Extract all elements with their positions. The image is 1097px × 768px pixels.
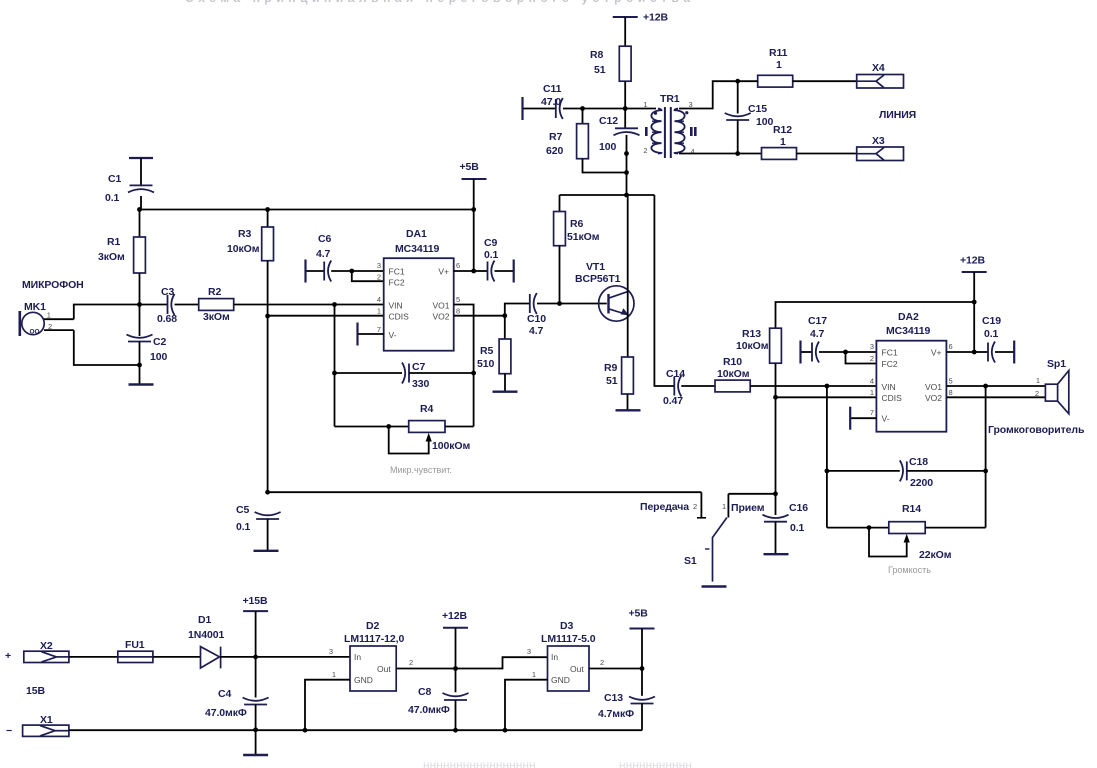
svg-text:X4: X4 bbox=[872, 62, 885, 74]
svg-text:2: 2 bbox=[409, 658, 413, 667]
svg-text:22кОм: 22кОм bbox=[919, 549, 952, 561]
svg-text:D2: D2 bbox=[366, 620, 379, 632]
svg-text:TR1: TR1 bbox=[660, 93, 680, 105]
svg-text:47.0: 47.0 bbox=[541, 96, 561, 108]
svg-text:ннннннннннннннннн: ннннннннннннннннн bbox=[423, 758, 536, 768]
svg-text:R5: R5 bbox=[480, 345, 493, 357]
junction D3 GND rail bbox=[503, 728, 508, 733]
junction collector node bbox=[624, 193, 629, 198]
wire C7 left bbox=[335, 372, 403, 374]
svg-text:Передача: Передача bbox=[640, 501, 689, 513]
junction C7 left bbox=[332, 371, 337, 376]
resistor R2 bbox=[199, 299, 234, 311]
speaker Sp1 bbox=[1045, 371, 1068, 414]
wire C17 left bbox=[802, 351, 813, 353]
arrow VT1 emitter bbox=[621, 308, 629, 315]
ground C16 bbox=[764, 553, 789, 555]
svg-text:4.7: 4.7 bbox=[810, 328, 825, 340]
svg-text:1: 1 bbox=[532, 670, 536, 679]
svg-text:620: 620 bbox=[546, 145, 563, 157]
svg-text:МИКРОФОН: МИКРОФОН bbox=[22, 279, 84, 291]
svg-text:Громкоговоритель: Громкоговоритель bbox=[988, 424, 1085, 436]
capacitor C1 bbox=[128, 185, 154, 192]
winding numeral I bbox=[645, 127, 648, 136]
resistor R11 bbox=[758, 75, 793, 87]
junction R13/CDIS2 bbox=[773, 395, 778, 400]
op-amp DA1 MC34119 bbox=[384, 258, 454, 351]
power +5B symbol bbox=[462, 178, 487, 180]
svg-text:4: 4 bbox=[870, 377, 874, 386]
capacitor C2 bbox=[127, 335, 153, 342]
svg-text:X1: X1 bbox=[40, 714, 53, 726]
fuse FU1 bbox=[118, 651, 153, 662]
svg-text:R3: R3 bbox=[238, 228, 251, 240]
wire FC2 jog bbox=[352, 271, 384, 281]
svg-text:D3: D3 bbox=[560, 620, 573, 632]
svg-text:C2: C2 bbox=[153, 336, 166, 348]
svg-text:2: 2 bbox=[600, 658, 604, 667]
junction D2 GND rail bbox=[303, 728, 308, 733]
wire R10 to VIN DA2 bbox=[750, 385, 876, 387]
ground C5 bbox=[254, 550, 279, 552]
svg-text:C11: C11 bbox=[543, 83, 562, 95]
svg-text:3: 3 bbox=[329, 647, 333, 656]
wire C5 to ground bbox=[267, 519, 269, 550]
junction R7 top bbox=[580, 106, 585, 111]
wire R2 to VIN bbox=[234, 304, 384, 306]
wire +12B down bbox=[973, 272, 975, 352]
svg-text:Прием: Прием bbox=[731, 502, 765, 514]
wire C8 bottom stub bbox=[455, 700, 457, 730]
svg-text:ннннннннннн: ннннннннннн bbox=[619, 758, 692, 768]
junction VO1/C18 branch bbox=[983, 384, 988, 389]
svg-text:1: 1 bbox=[47, 311, 51, 320]
svg-text:0.47: 0.47 bbox=[663, 395, 683, 407]
wire C2 bottom stub bbox=[139, 342, 141, 366]
resistor R1 bbox=[134, 237, 146, 273]
capacitor C7 bbox=[402, 363, 409, 384]
svg-text:2200: 2200 bbox=[910, 477, 933, 489]
regulator D3 LM1117-5.0 bbox=[548, 646, 590, 691]
op-amp DA2 MC34119 bbox=[876, 341, 946, 432]
svg-text:3: 3 bbox=[527, 647, 531, 656]
wire C19 right bbox=[995, 351, 1014, 353]
transformer TR1 winding I bbox=[651, 109, 661, 154]
wire down to R14 left bbox=[826, 471, 828, 528]
svg-text:R1: R1 bbox=[107, 236, 120, 248]
svg-text:R13: R13 bbox=[742, 328, 761, 340]
wire FC1 stub DA2 bbox=[846, 351, 877, 353]
svg-text:0.68: 0.68 bbox=[157, 313, 177, 325]
svg-text:FC2: FC2 bbox=[389, 278, 405, 288]
svg-text:In: In bbox=[354, 652, 361, 662]
svg-text:Микр.чувствит.: Микр.чувствит. bbox=[390, 465, 452, 475]
terminal C6 bbox=[304, 260, 306, 283]
wire C4 bottom stub bbox=[255, 705, 257, 730]
svg-text:V+: V+ bbox=[438, 267, 449, 277]
wire R14 right bbox=[925, 527, 985, 529]
wire +5B stub bottom bbox=[641, 629, 643, 669]
junction +15B/C4 bbox=[253, 655, 258, 660]
power +12B symbol right bbox=[962, 271, 987, 273]
wire R13 to +12V line bbox=[776, 302, 975, 328]
wire C1 top stub bbox=[140, 158, 142, 186]
svg-text:C6: C6 bbox=[318, 233, 331, 245]
svg-text:V-: V- bbox=[389, 330, 397, 340]
svg-text:+12В: +12В bbox=[442, 610, 468, 622]
svg-text:FC1: FC1 bbox=[882, 348, 898, 358]
arrow R4 wiper bbox=[426, 433, 432, 442]
svg-text:LM1117-5.0: LM1117-5.0 bbox=[541, 633, 596, 645]
terminal C19 bbox=[1013, 341, 1015, 364]
svg-text:1: 1 bbox=[332, 670, 336, 679]
regulator D2 LM1117-12.0 bbox=[350, 646, 396, 691]
svg-text:C18: C18 bbox=[909, 456, 928, 468]
svg-text:C12: C12 bbox=[599, 115, 618, 127]
wire CDIS line DA1 bbox=[268, 315, 384, 317]
wire D2 Out to D3 In bbox=[456, 657, 548, 668]
svg-text:X2: X2 bbox=[40, 640, 53, 652]
svg-text:4.7мкФ: 4.7мкФ bbox=[598, 708, 634, 720]
terminal C9 bbox=[513, 260, 515, 283]
wire +15B down bbox=[255, 611, 257, 657]
svg-text:3кОм: 3кОм bbox=[98, 251, 125, 263]
wire R7 bottom loop bbox=[583, 159, 627, 173]
wire TR1 pin3 to R11 bbox=[679, 81, 738, 108]
wire R6 top bbox=[559, 195, 561, 212]
wire R9 to ground bbox=[627, 394, 629, 410]
transformer TR1 winding II bbox=[675, 109, 685, 154]
svg-text:C1: C1 bbox=[108, 173, 121, 185]
wire +12B to R8 bbox=[624, 17, 626, 46]
junction R7/vertical bbox=[624, 170, 629, 175]
wire X2 to FU1 bbox=[69, 656, 118, 658]
wire FU1 to D1 bbox=[153, 656, 201, 658]
junction V+/C9 bbox=[471, 269, 476, 274]
wire C18 left segment bbox=[827, 470, 900, 472]
svg-text:C3: C3 bbox=[161, 286, 174, 298]
svg-text:1: 1 bbox=[1036, 376, 1040, 385]
svg-text:510: 510 bbox=[477, 358, 494, 370]
wire to R11 bbox=[738, 80, 758, 82]
junction +12B/R13 line bbox=[972, 300, 977, 305]
svg-text:Out: Out bbox=[570, 664, 584, 674]
wire R5 top bbox=[504, 316, 506, 339]
capacitor C9 bbox=[488, 261, 495, 282]
junction R3 top bbox=[265, 207, 270, 212]
svg-text:R12: R12 bbox=[773, 124, 792, 136]
svg-text:+15В: +15В bbox=[243, 595, 269, 607]
potentiometer R14 bbox=[889, 522, 925, 534]
wire node to C3 bbox=[140, 304, 168, 306]
svg-text:C16: C16 bbox=[789, 502, 808, 514]
wire C16 top stub bbox=[775, 494, 777, 515]
svg-text:VO1: VO1 bbox=[432, 301, 449, 311]
svg-text:GND: GND bbox=[551, 675, 570, 685]
wire R1 bottom stub bbox=[139, 273, 141, 305]
svg-text:R10: R10 bbox=[723, 356, 742, 368]
svg-text:6: 6 bbox=[456, 261, 460, 270]
microphone MK1 bbox=[20, 311, 44, 336]
svg-text:Out: Out bbox=[377, 664, 391, 674]
capacitor C1 terminal bar bbox=[129, 157, 153, 159]
svg-text:MC34119: MC34119 bbox=[886, 325, 931, 337]
junction V+ DA2 bbox=[972, 350, 977, 355]
wire C8 top stub bbox=[455, 669, 457, 693]
svg-text:0.1: 0.1 bbox=[484, 249, 499, 261]
capacitor C17 bbox=[812, 342, 819, 363]
svg-text:51: 51 bbox=[606, 375, 618, 387]
arrow R14 wiper bbox=[904, 534, 910, 543]
svg-text:C7: C7 bbox=[412, 361, 425, 373]
wire VO1 down bbox=[985, 386, 987, 471]
svg-text:FU1: FU1 bbox=[125, 639, 145, 651]
wire MK1 pin2 to C2 bbox=[74, 330, 140, 365]
wire D1 to D2 In bbox=[220, 656, 350, 658]
wire R13 bottom bbox=[775, 363, 777, 397]
svg-text:5: 5 bbox=[456, 295, 460, 304]
junction R6 bottom bbox=[557, 301, 562, 306]
wire C3 to R2 bbox=[175, 304, 199, 306]
wire R7 top bbox=[582, 109, 584, 124]
wire C16 to ground bbox=[775, 522, 777, 553]
svg-text:3кОм: 3кОм bbox=[203, 311, 230, 323]
capacitor C14 bbox=[674, 376, 681, 397]
connector X1 bbox=[23, 725, 69, 736]
wire R1 top stub bbox=[139, 210, 141, 238]
wire D3 Out bbox=[589, 668, 642, 670]
svg-text:V+: V+ bbox=[931, 348, 942, 358]
svg-text:CDIS: CDIS bbox=[882, 393, 903, 403]
svg-text:2: 2 bbox=[377, 273, 381, 282]
svg-text:51: 51 bbox=[594, 64, 606, 76]
wire Передача contact bbox=[700, 492, 702, 517]
wire C11 to TR1 pin1 bbox=[563, 108, 656, 110]
wire C18 right segment bbox=[907, 470, 986, 472]
svg-text:0.1: 0.1 bbox=[790, 522, 805, 534]
wire R6 bottom bbox=[559, 246, 561, 304]
svg-text:VO2: VO2 bbox=[432, 312, 449, 322]
junction C5/Передача bbox=[265, 490, 270, 495]
ground R5 bbox=[493, 391, 518, 393]
svg-text:R14: R14 bbox=[902, 503, 921, 515]
svg-text:VIN: VIN bbox=[389, 301, 403, 311]
wire TR1 pin4 to R12 bbox=[679, 153, 762, 155]
capacitor C10 bbox=[530, 293, 537, 314]
svg-text:1: 1 bbox=[377, 307, 381, 316]
power +12B symbol top bbox=[613, 16, 638, 18]
wire V- stub DA2 bbox=[851, 417, 876, 419]
wire R3 to CDIS node bbox=[267, 261, 269, 316]
wire R14 wiper bbox=[869, 528, 907, 557]
wire C13 bottom stub bbox=[641, 704, 643, 731]
svg-text:VT1: VT1 bbox=[586, 261, 605, 273]
wire down to Прием node bbox=[775, 397, 777, 494]
svg-text:R9: R9 bbox=[604, 362, 617, 374]
junction R8/C12 bbox=[623, 106, 628, 111]
S1 pole bbox=[705, 518, 727, 582]
junction TR1 pin2 bbox=[624, 151, 629, 156]
wire R11 to X4 bbox=[793, 80, 857, 82]
wire collector node to C14 bbox=[654, 195, 674, 386]
resistor R3 bbox=[262, 227, 274, 261]
svg-text:R11: R11 bbox=[769, 47, 788, 59]
wire down to R14 bbox=[985, 471, 987, 528]
svg-text:100: 100 bbox=[599, 141, 616, 153]
svg-text:2: 2 bbox=[643, 146, 647, 155]
svg-text:1: 1 bbox=[776, 59, 782, 71]
connector X3 bbox=[857, 147, 904, 161]
junction C1/R1/+5V bbox=[137, 207, 142, 212]
wire C14 to R10 bbox=[681, 385, 715, 387]
wire D2 GND bbox=[305, 680, 350, 731]
junction C8 rail bbox=[453, 728, 458, 733]
junction VO2/R5/C10 bbox=[502, 313, 507, 318]
terminal C17 bbox=[799, 341, 801, 364]
svg-text:1: 1 bbox=[780, 136, 786, 148]
svg-text:R8: R8 bbox=[590, 49, 603, 61]
potentiometer R4 bbox=[409, 421, 445, 433]
wire C17 to FC1 DA2 bbox=[819, 351, 846, 353]
junction R3/CDIS bbox=[265, 314, 270, 319]
wire MK1 pin1 to node bbox=[74, 305, 140, 320]
wire CDIS line DA2 bbox=[776, 396, 877, 398]
wire FC1 stub bbox=[352, 270, 384, 272]
resistor R13 bbox=[770, 328, 782, 363]
svg-text:C15: C15 bbox=[748, 103, 767, 115]
junction FC1/FC2 DA2 bbox=[843, 350, 848, 355]
svg-text:C13: C13 bbox=[604, 692, 623, 704]
resistor R6 bbox=[554, 212, 566, 246]
wire V- stub DA1 bbox=[359, 333, 384, 335]
svg-text:R6: R6 bbox=[570, 218, 583, 230]
terminal V- DA2 bbox=[849, 407, 851, 430]
wire VO2 bbox=[454, 315, 505, 317]
wire to C19 bbox=[974, 351, 988, 353]
ground C2 bbox=[129, 383, 154, 385]
svg-text:ОО: ОО bbox=[30, 329, 40, 336]
svg-text:ЛИНИЯ: ЛИНИЯ bbox=[879, 109, 916, 121]
wire C12 top stub bbox=[624, 109, 626, 129]
wire VT1 collector-emitter vertical bbox=[627, 195, 629, 357]
svg-text:+12В: +12В bbox=[643, 12, 669, 24]
ground R9 bbox=[616, 409, 641, 411]
wire C4 top stub bbox=[255, 657, 257, 698]
wire C2 top stub bbox=[139, 305, 141, 337]
junction C2 bottom bbox=[137, 363, 142, 368]
svg-text:47.0мкФ: 47.0мкФ bbox=[205, 707, 247, 719]
wire C10 to VT1 base bbox=[537, 303, 607, 305]
svg-text:C9: C9 bbox=[484, 237, 497, 249]
svg-text:R4: R4 bbox=[420, 403, 433, 415]
svg-text:51кОм: 51кОм bbox=[567, 231, 600, 243]
capacitor C4 bbox=[243, 698, 269, 705]
wire VO1 down to R4 bbox=[454, 305, 474, 427]
svg-text:8: 8 bbox=[456, 307, 460, 316]
svg-text:S1: S1 bbox=[684, 555, 697, 567]
power +12B symbol bottom bbox=[443, 627, 468, 629]
junction +12B bottom bbox=[453, 666, 458, 671]
wire up to C10 bbox=[505, 304, 530, 316]
svg-text:4.7: 4.7 bbox=[529, 325, 544, 337]
svg-text:0.1: 0.1 bbox=[105, 192, 120, 204]
capacitor C6 bbox=[324, 261, 331, 282]
svg-text:0.1: 0.1 bbox=[236, 521, 251, 533]
wire R14 left bbox=[827, 527, 889, 529]
junction FC1/FC2 bbox=[349, 269, 354, 274]
wire R8 bottom bbox=[624, 81, 626, 108]
svg-text:FC1: FC1 bbox=[389, 267, 405, 277]
connector X4 bbox=[857, 75, 904, 89]
wire C15 bottom stub bbox=[737, 120, 739, 154]
junction +5B stub bbox=[471, 207, 476, 212]
junction VIN/feedback bbox=[332, 302, 337, 307]
svg-text:3: 3 bbox=[377, 261, 381, 270]
svg-text:5: 5 bbox=[949, 377, 953, 386]
svg-text:C10: C10 bbox=[527, 313, 546, 325]
svg-text:100кОм: 100кОм bbox=[432, 440, 470, 452]
svg-text:47.0мкФ: 47.0мкФ bbox=[408, 704, 450, 716]
svg-text:100: 100 bbox=[756, 116, 773, 128]
wire R12 to X3 bbox=[797, 153, 857, 155]
junction bottom rail C4 bbox=[253, 727, 258, 732]
wire FC2 jog DA2 bbox=[846, 352, 877, 364]
wire C12 bottom to VT1 node bbox=[626, 135, 628, 195]
svg-text:4: 4 bbox=[691, 147, 695, 156]
capacitor C8 bbox=[443, 693, 469, 700]
svg-text:7: 7 bbox=[870, 408, 874, 417]
wire +12B stub bottom bbox=[455, 628, 457, 669]
capacitor C15 bbox=[725, 113, 751, 120]
junction R4 wiper bbox=[386, 424, 391, 429]
wire feedback left vertical bbox=[334, 305, 336, 427]
wire collector node horizontal bbox=[560, 194, 655, 196]
junction C15 bottom bbox=[735, 151, 740, 156]
junction VO1/C7 bbox=[471, 371, 476, 376]
wire Прием contact bbox=[727, 494, 729, 518]
wire bottom rail bbox=[69, 729, 642, 731]
svg-text:VIN: VIN bbox=[882, 382, 896, 392]
wire V+ to C9 bbox=[474, 270, 488, 272]
svg-text:7: 7 bbox=[377, 325, 381, 334]
svg-text:100: 100 bbox=[150, 351, 167, 363]
wire R4 left bbox=[335, 426, 409, 428]
power +15B symbol bbox=[243, 610, 268, 612]
wire C7 right bbox=[409, 372, 474, 374]
svg-text:8: 8 bbox=[949, 388, 953, 397]
wire VO1 to Sp1 bbox=[946, 385, 1045, 387]
wire D2 Out bbox=[396, 668, 455, 670]
svg-text:3: 3 bbox=[870, 342, 874, 351]
svg-text:V-: V- bbox=[882, 414, 890, 424]
svg-text:VO2: VO2 bbox=[925, 393, 942, 403]
svg-text:+5В: +5В bbox=[460, 161, 480, 173]
svg-text:4.7: 4.7 bbox=[316, 248, 331, 260]
svg-text:DA2: DA2 bbox=[898, 311, 919, 323]
wire V+ stub DA1 bbox=[454, 270, 474, 272]
svg-text:FC2: FC2 bbox=[882, 359, 898, 369]
svg-text:Громкость: Громкость bbox=[888, 565, 931, 575]
capacitor C11 bbox=[556, 98, 563, 119]
svg-text:330: 330 bbox=[412, 378, 429, 390]
wire Передача line bbox=[268, 491, 702, 493]
winding numeral II bbox=[690, 127, 693, 136]
svg-text:+: + bbox=[5, 650, 11, 662]
wire VO2 to Sp1 bbox=[946, 396, 1045, 398]
wire MK1 pin2 bbox=[44, 329, 74, 331]
svg-text:C19: C19 bbox=[982, 315, 1001, 327]
contact bar Передача bbox=[697, 517, 706, 519]
